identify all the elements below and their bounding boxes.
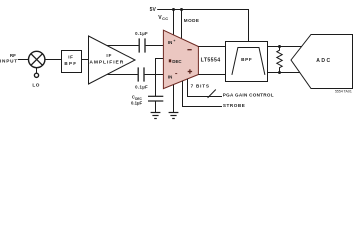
- labels VCC and MODE: [158, 15, 199, 23]
- wire U1 out- to BPF: [198, 74, 225, 76]
- junction MODE: [180, 8, 183, 11]
- wire MODE drop: [181, 10, 183, 39]
- svg-text:LT5554: LT5554: [201, 58, 221, 64]
- svg-text:MODE: MODE: [184, 18, 200, 23]
- svg-text:LO: LO: [32, 83, 40, 88]
- wire mixer to LO terminal: [36, 68, 38, 73]
- svg-text:+: +: [173, 39, 175, 43]
- svg-text:0.1µF: 0.1µF: [131, 101, 142, 106]
- label LT5554: [201, 58, 221, 64]
- wire amplifier top output to C1: [107, 45, 139, 47]
- wire amplifier bottom output to C2: [108, 74, 138, 76]
- pin DEC: [169, 59, 171, 62]
- wire STROBE: [183, 81, 223, 107]
- svg-text:0.1µF: 0.1µF: [135, 85, 148, 90]
- label STROBE: [223, 103, 245, 108]
- svg-text:5554 TA01: 5554 TA01: [335, 90, 352, 94]
- capacitor C1 0.1uF (top coupling): [138, 38, 140, 52]
- mixer M1 (circle with X): [29, 51, 45, 67]
- svg-text:BPF: BPF: [241, 57, 252, 62]
- wire IF BPF to amplifier: [82, 59, 89, 61]
- wire U1 out+ to BPF: [198, 46, 225, 48]
- svg-text:CC: CC: [162, 16, 168, 21]
- wire C2 to IN-: [145, 74, 164, 76]
- pin IN- superscript minus: [175, 73, 177, 75]
- svg-text:IF: IF: [106, 53, 112, 58]
- wire CDEC to ground: [155, 101, 157, 113]
- wire BPF out top to ADC: [268, 46, 302, 48]
- amplifier A1 IF AMPLIFIER triangle: [89, 36, 136, 84]
- svg-text:0.1µF: 0.1µF: [135, 31, 148, 36]
- resistor R1 termination: [277, 47, 282, 73]
- label LO: [32, 83, 40, 88]
- wire 5V rail: [157, 10, 248, 42]
- capacitor C3 CDEC 0.1uF: [148, 95, 163, 97]
- node RF INPUT label: [0, 53, 18, 64]
- ADC block: [291, 35, 353, 89]
- op-amp U1 LT5554 PGA body: [163, 30, 198, 88]
- svg-text:PGA GAIN CONTROL: PGA GAIN CONTROL: [223, 92, 274, 97]
- svg-text:BPF: BPF: [64, 61, 77, 66]
- filter FL2 BPF box: [226, 42, 268, 82]
- wire U1 ground stub: [173, 85, 175, 113]
- junction resistor bottom: [278, 71, 281, 74]
- labels 7 BITS and PGA GAIN CONTROL: [191, 84, 274, 98]
- label ADC and figure number 5554 TA01: [316, 58, 352, 94]
- wire PGA gain control bus: [188, 79, 223, 97]
- wire VCC drop: [173, 10, 175, 36]
- node LO terminal: [34, 73, 38, 77]
- filter FL1 IF BPF box: [62, 51, 82, 73]
- wire DEC pin to CDEC: [156, 59, 164, 97]
- svg-text:AMPLIFIER: AMPLIFIER: [89, 59, 124, 65]
- svg-text:IN: IN: [168, 40, 172, 45]
- output polarity minus: [187, 49, 191, 51]
- svg-text:INPUT: INPUT: [0, 59, 18, 64]
- svg-text:ADC: ADC: [316, 58, 331, 64]
- svg-text:RF: RF: [10, 53, 16, 58]
- output polarity plus: [188, 69, 192, 73]
- svg-text:7 BITS: 7 BITS: [191, 84, 210, 89]
- svg-text:DEC: DEC: [172, 59, 182, 64]
- ground (under CDEC): [151, 113, 161, 119]
- capacitor C2 0.1uF (bottom coupling): [137, 67, 139, 81]
- wire BPF out bottom to ADC: [268, 72, 300, 74]
- wire mixer to IF BPF: [45, 59, 62, 61]
- bandpass icon: [232, 48, 265, 75]
- bus slash 7 bits: [208, 90, 216, 98]
- ground (under U1): [169, 113, 179, 119]
- svg-text:IF: IF: [68, 55, 73, 60]
- junction resistor top: [278, 45, 281, 48]
- svg-text:5V: 5V: [150, 7, 157, 13]
- wire C1 to IN+: [146, 45, 164, 47]
- 5V supply label: [150, 7, 157, 13]
- junction VCC: [172, 8, 175, 11]
- wire RF input to mixer: [18, 59, 29, 61]
- svg-text:IN: IN: [168, 75, 172, 80]
- svg-text:STROBE: STROBE: [223, 103, 245, 108]
